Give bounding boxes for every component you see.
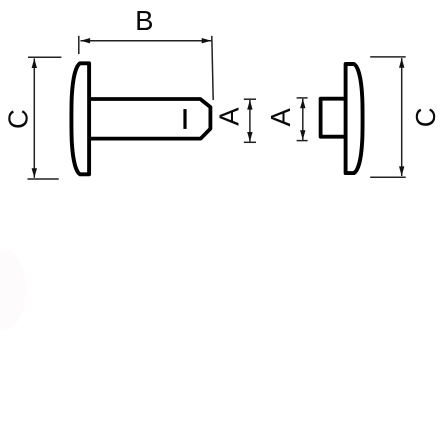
dimension C left arrow up [32,58,37,68]
dimension B line [81,40,212,42]
dimension C right line [401,58,403,176]
svg-text:C: C [410,107,441,127]
svg-text:C: C [3,109,34,129]
dimension A rivet line [249,100,251,142]
dimension C right arrow up [399,58,404,68]
dimension A washer line [302,99,304,140]
dimension A washer extension top [297,97,308,99]
dimension A rivet extension top [244,98,256,100]
dimension A rivet arrow up [247,100,252,110]
dimension A rivet extension bottom [244,141,256,143]
dimension A rivet arrow down [247,132,252,142]
dimension A washer arrow down [300,130,305,140]
svg-text:B: B [135,5,153,36]
dimension C left line [33,58,35,177]
svg-text:A: A [214,107,245,126]
dimension B arrow right [202,38,212,43]
label A washer [265,107,296,126]
marking line on shank [183,109,186,129]
dimension C right extension bottom [370,176,406,178]
dimension B extension line left [78,36,80,54]
dimension A washer arrow up [300,99,305,109]
svg-text:A: A [265,107,296,126]
dimension C left arrow down [32,168,37,178]
dimension C left extension top [28,56,61,58]
dimension C left extension bottom [28,178,59,180]
washer cap body [346,64,363,173]
rivet shank with chamfered tip [89,99,210,139]
washer bore boss [321,99,346,137]
label C left [3,109,34,129]
dimension A washer extension bottom [297,140,308,142]
dimension C right extension top [370,56,406,58]
label C right [410,107,441,127]
dimension B arrow left [81,38,91,43]
rivet head [71,63,89,174]
label A rivet [214,107,245,126]
faint smudge bottom-left [0,250,26,330]
dimension C right arrow down [399,166,404,176]
dimension B extension line right [212,36,213,100]
